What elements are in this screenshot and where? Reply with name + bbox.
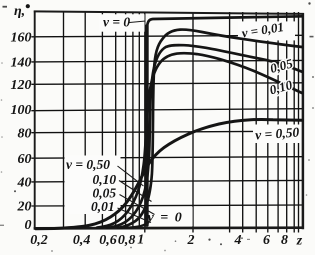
plot border right bbox=[302, 13, 305, 229]
curve nu=0.50 bbox=[36, 119, 302, 228]
svg-text:z: z bbox=[296, 234, 303, 249]
svg-text:0,01: 0,01 bbox=[91, 199, 115, 214]
svg-text:40: 40 bbox=[17, 176, 32, 191]
svg-text:6: 6 bbox=[263, 233, 270, 248]
leader from 0,10 stack label bbox=[119, 181, 152, 202]
svg-text:2: 2 bbox=[187, 233, 195, 248]
leader from 0,50 stack label bbox=[118, 166, 144, 186]
svg-text:0,8: 0,8 bbox=[118, 233, 136, 248]
white box behind bottom nu=0 label bbox=[146, 207, 193, 226]
svg-text:0,2: 0,2 bbox=[30, 233, 48, 248]
plot border left / y-axis bbox=[34, 11, 36, 230]
svg-text:η,: η, bbox=[14, 4, 25, 19]
svg-text:ν = 0: ν = 0 bbox=[103, 15, 130, 30]
curve nu=0 vertical jump at z=1 bbox=[145, 26, 149, 225]
svg-text:140: 140 bbox=[11, 56, 32, 71]
x axis tick labels bbox=[30, 233, 303, 249]
leader from bottom nu=0 label bbox=[144, 222, 150, 228]
svg-text:160: 160 bbox=[11, 31, 32, 46]
grid vertical minor lines bbox=[64, 12, 299, 233]
leader from 0,05 stack label bbox=[120, 195, 155, 215]
svg-text:1: 1 bbox=[137, 233, 144, 248]
svg-text:80: 80 bbox=[18, 126, 32, 141]
svg-text:4: 4 bbox=[234, 233, 242, 248]
curve nu=0 top run bbox=[147, 16, 302, 30]
plot border top bbox=[34, 11, 304, 14]
svg-text:ν = 0: ν = 0 bbox=[148, 211, 182, 226]
curve nu=0.10 bbox=[97, 53, 302, 227]
curve nu=0.05 bbox=[107, 45, 302, 228]
svg-text:20: 20 bbox=[17, 200, 32, 215]
white box behind top nu=0 label bbox=[99, 14, 145, 31]
leader dash for top nu=0 label bbox=[130, 21, 146, 23]
svg-text:ν = 0,50: ν = 0,50 bbox=[255, 124, 300, 142]
curve nu=0.01 bbox=[118, 30, 302, 228]
white box behind left label stack bbox=[65, 156, 121, 215]
svg-text:8: 8 bbox=[281, 233, 288, 248]
white box behind nu=0,01 label bbox=[238, 21, 295, 40]
svg-text:0,6: 0,6 bbox=[99, 233, 117, 248]
svg-text:0,4: 0,4 bbox=[73, 233, 91, 248]
grid horizontal lines with left ticks bbox=[31, 35, 302, 206]
svg-text:0: 0 bbox=[25, 218, 32, 233]
svg-text:60: 60 bbox=[18, 152, 32, 167]
y axis tick labels bbox=[11, 31, 32, 234]
svg-text:ν = 0,50: ν = 0,50 bbox=[66, 157, 110, 172]
svg-text:120: 120 bbox=[11, 78, 32, 93]
leader from 0,01 stack label bbox=[118, 208, 152, 223]
svg-text:100: 100 bbox=[11, 103, 32, 118]
curve nu=0 tail along axis bbox=[118, 225, 145, 228]
x-axis bottom bbox=[34, 226, 304, 229]
white box behind right nu=0,50 label bbox=[253, 125, 306, 144]
